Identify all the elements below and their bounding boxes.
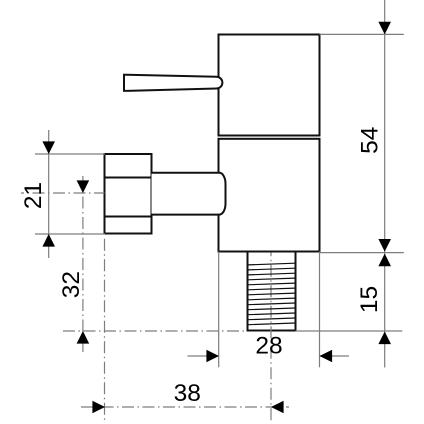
svg-text:38: 38 [174, 380, 201, 407]
centerline outlet axis horizontal [21, 192, 105, 194]
dimension line 21 vertical [48, 130, 50, 258]
arrow 32 top [77, 180, 90, 193]
arrow 28 right [320, 350, 333, 363]
extension line threads bottom (15) [296, 330, 403, 332]
arrow 38 left [92, 401, 105, 414]
arrow 38 right [271, 401, 284, 414]
valve body upper block [219, 35, 320, 136]
svg-text:32: 32 [58, 271, 85, 298]
svg-text:15: 15 [356, 286, 383, 313]
centerline threads bottom horizontal (32) [63, 330, 248, 332]
spout pipe [152, 173, 226, 215]
arrow 54 top [378, 22, 391, 35]
centerline wall plane vertical [104, 239, 106, 421]
extension line outlet bottom (21) [35, 233, 105, 235]
dimension line 28 right segment [320, 355, 349, 357]
centerline 32 vertical [82, 176, 84, 352]
extension line outlet top (21) [35, 153, 105, 155]
arrow 21 top [42, 141, 55, 154]
arrow 15 bottom [378, 332, 391, 345]
thread hatch lines [248, 263, 295, 325]
extension line body right (28) [319, 252, 321, 368]
arrow 28 left [206, 350, 219, 363]
svg-text:21: 21 [20, 182, 47, 209]
arrow 21 bottom [42, 234, 55, 247]
valve body lower block [219, 139, 320, 252]
extension line top (54) [320, 33, 404, 35]
extension line body bottom (54/15) [320, 252, 404, 254]
dimension line 28 left segment [188, 355, 219, 357]
centerline inlet axis vertical [270, 253, 272, 421]
threaded inlet pipe [248, 252, 296, 331]
dimension line 38 horizontal [81, 406, 289, 408]
dimension line 54/15 vertical [384, 0, 386, 368]
extension line body left (28) [218, 252, 220, 368]
outlet flange [105, 154, 152, 234]
handle lever [124, 75, 222, 91]
arrow 32 bottom [77, 331, 90, 344]
svg-text:54: 54 [356, 127, 383, 154]
svg-text:28: 28 [255, 332, 282, 359]
arrow 15 top [378, 239, 391, 252]
arrow 54 bottom [378, 254, 391, 267]
